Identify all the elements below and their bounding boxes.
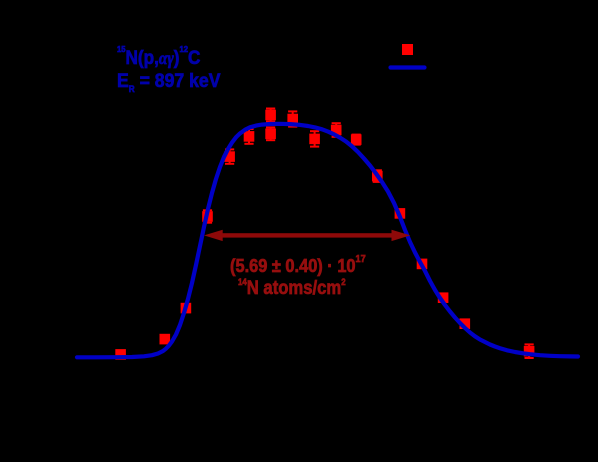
error bar [525,344,534,358]
data point square 12 [351,134,362,145]
areal density value [230,256,366,277]
data point square 7 [265,110,276,121]
data point square 16 [438,292,449,303]
data point square 14 [395,208,406,219]
error bar [288,111,297,126]
legend line sample [391,65,425,69]
error bar [203,210,212,222]
double-headed arrow (target thickness) [204,230,410,241]
error bar [332,123,341,137]
error bar [266,127,275,140]
data point square 15 [417,259,428,270]
data point square 4 [202,211,213,222]
reaction label line 1 [117,47,200,70]
data point square 11 [331,125,342,136]
data point square 2 [160,334,171,345]
data point square 18 [524,346,535,357]
error bar [352,135,361,145]
data point square 5 [224,151,235,162]
data point square 1 [115,349,126,360]
data point square 9 [287,114,298,125]
error bar [225,149,234,163]
error bar [244,129,253,144]
areal density units [238,277,346,300]
error bar [310,131,319,146]
data point square 13 [372,171,383,182]
data point square 10 [309,134,320,145]
legend marker square [402,44,413,55]
data point square 17 [460,318,471,329]
data point square 8 [265,129,276,140]
error bar [266,109,275,122]
fitted yield curve [77,124,578,357]
error bar [373,170,382,182]
resonance energy label line 2 [117,70,221,93]
data point square 6 [244,131,255,142]
data point square 3 [181,303,192,314]
